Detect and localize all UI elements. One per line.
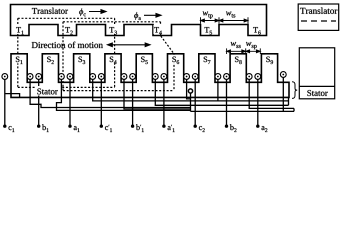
coil S1 right conductor (circle-dot) (27, 74, 33, 80)
coil S9 left conductor (circle-dot) (255, 74, 261, 80)
terminal label 5 (136, 124, 144, 132)
flux path vertical through T1/S1 (17, 18, 19, 87)
wire coil S3 left conductor down to terminal (69, 79, 71, 126)
tooth label T5 (204, 25, 213, 34)
wire coil S9 left conductor down to terminal (257, 79, 259, 126)
flux path phi-a top dashed line (63, 21, 161, 23)
wire coil S2 left conductor down to terminal (38, 79, 40, 126)
terminal dot 7 (194, 125, 197, 128)
dimension label w_sp (246, 42, 257, 49)
legend label Translator (300, 7, 337, 13)
flux label phi-c (79, 8, 86, 16)
wire coil S3 right conductor long bus to right edge (93, 79, 289, 101)
coil S6 right conductor (circle-dot) (184, 74, 190, 80)
wire coil S4 left conductor down to terminal (100, 79, 102, 126)
terminal dot 3 (68, 125, 71, 128)
dimension label w_tp (203, 12, 213, 19)
flux path phi-c bottom dashed line in stator yoke (18, 86, 115, 88)
wire coil S6 left conductor down to terminal (163, 79, 165, 126)
wire coil S8 right conductor bus to far right (249, 79, 294, 108)
wire coil S2 right conductor bus (staircase to neutral) (57, 79, 191, 110)
coil S7 left conductor (circle-dot) (192, 74, 198, 80)
dimension ticks and arrows for w_tp and w_ts (201, 17, 249, 24)
neutral point 0 (small circle) (188, 89, 192, 93)
terminal dot 8 (225, 125, 228, 128)
terminal dot 1 (3, 125, 6, 128)
label Stator (37, 88, 57, 94)
legend stator divider (299, 85, 334, 87)
tooth label T1 (15, 25, 24, 34)
double-headed arrow for direction of motion (108, 43, 151, 47)
coil S8 right conductor (circle-dot) (246, 74, 252, 80)
terminal dot 4 (100, 125, 103, 128)
arrow for phi-a (144, 14, 161, 18)
tooth label T4 (153, 25, 162, 34)
legend box Translator (298, 4, 339, 30)
terminal dot 6 (162, 125, 165, 128)
label Translator (32, 8, 68, 14)
flux path diagonal T4 to S6 (161, 36, 174, 54)
neutral spine wire (190, 93, 192, 111)
legend label Stator (307, 90, 327, 96)
legend box Stator outer (299, 48, 334, 99)
terminal label 9 (261, 126, 267, 132)
wire coil S1 right conductor bus (staircase to neutral) (30, 79, 190, 107)
wire coil S6 right conductor link to neutral (187, 79, 191, 99)
white backing for Stator label (36, 86, 61, 96)
dimension label w_ts (226, 12, 235, 18)
wire coil S7 right conductor drop to long bus (217, 79, 219, 101)
tooth label S2 (46, 55, 55, 64)
coil S8 left conductor (circle-dot) (224, 74, 230, 80)
coil S7 right conductor (circle-dot) (215, 74, 221, 80)
terminal label 4 (105, 125, 112, 132)
wire bus neutral to far right lower (191, 110, 295, 112)
legend dashed line (301, 20, 336, 22)
terminal dot 9 (256, 125, 259, 128)
tooth label S9 (265, 55, 274, 64)
arrow for phi-c (89, 10, 106, 14)
flux path vertical through S6 (173, 54, 175, 91)
flux path vertical through T3/S4 (114, 18, 116, 87)
terminal label 6 (168, 125, 175, 132)
terminal label 1 (9, 126, 15, 132)
tooth label S8 (234, 55, 243, 64)
tooth label S4 (108, 55, 117, 64)
curly brace pointing to Stator legend (292, 82, 297, 99)
label Direction of motion (32, 42, 103, 48)
wire right edge vertical link (289, 97, 295, 111)
tooth label S5 (140, 55, 149, 64)
stator core outline with teeth S1-S9 (11, 54, 289, 98)
terminal label 3 (74, 126, 80, 132)
tooth label S1 (15, 55, 24, 64)
coil S6 left conductor (circle-dot) (161, 74, 167, 80)
terminal label 8 (230, 124, 237, 132)
wire coil S8 left conductor down to terminal (226, 79, 228, 126)
wire coil S7 left conductor down to terminal (194, 79, 196, 126)
wire coil S9 right conductor drop (282, 77, 284, 111)
wire coil S4 right conductor bus (124, 79, 191, 109)
tooth label T6 (252, 25, 261, 34)
flux path phi-c top dashed line (18, 17, 115, 19)
tooth label S7 (202, 55, 211, 64)
coil S3 right conductor (circle-dot) (90, 74, 96, 80)
dimension label w_ss (231, 42, 241, 48)
coil S2 right conductor (circle-dot) (59, 74, 65, 80)
coil S5 left conductor (circle-dot) (130, 74, 136, 80)
wire coil S5 right conductor bus (155, 79, 190, 105)
tooth label T2 (64, 25, 73, 34)
coil S9 right conductor (circle-dot) (280, 72, 286, 78)
terminal dot 5 (131, 125, 134, 128)
flux path vertical through T4 (160, 22, 162, 36)
tooth label S6 (171, 55, 180, 64)
coil S2 left conductor (circle-dot) (36, 74, 42, 80)
coil S5 right conductor (circle-dot) (152, 74, 158, 80)
flux path vertical through T2/slot (62, 22, 64, 91)
terminal label 2 (42, 124, 49, 132)
wire bus neutral to right edge upper (191, 104, 289, 106)
flux label phi-a (134, 12, 141, 20)
coil S4 right conductor (circle-dot) (121, 74, 127, 80)
flux path phi-a bottom dashed line in stator yoke (63, 90, 174, 92)
tooth label T3 (109, 25, 118, 34)
coil S4 left conductor (circle-dot) (98, 74, 104, 80)
tooth label S3 (77, 55, 86, 64)
terminal dot 2 (37, 125, 40, 128)
terminal label 7 (199, 126, 205, 132)
wire coil S5 left conductor down to terminal (132, 79, 134, 126)
translator core outline with teeth T1-T6 (11, 5, 267, 36)
coil S3 left conductor (circle-dot) (67, 74, 73, 80)
wire left lead step (5, 94, 19, 98)
wire coil S1 left conductor down to terminal (4, 79, 6, 126)
dimension ticks and arrows for w_ss and w_sp (227, 48, 261, 54)
coil S1 left conductor (circle-dot) (2, 74, 8, 80)
